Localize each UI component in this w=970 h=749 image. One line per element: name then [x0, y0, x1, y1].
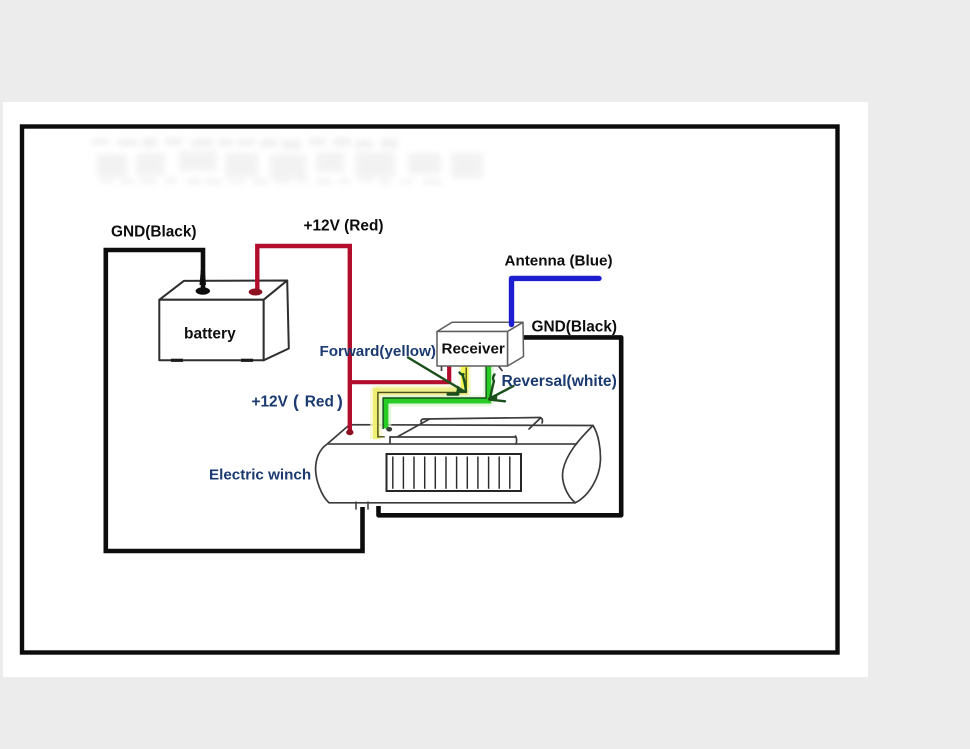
- svg-text:Receiver: Receiver: [442, 341, 505, 358]
- svg-text:Electric winch: Electric winch: [209, 467, 311, 484]
- svg-text:Red: Red: [305, 394, 334, 411]
- svg-text:Reversal(white): Reversal(white): [502, 373, 617, 390]
- svg-text:battery: battery: [184, 326, 236, 343]
- svg-text:+12V: +12V: [252, 394, 289, 411]
- svg-text:+12V (Red): +12V (Red): [304, 218, 384, 235]
- svg-text:Antenna (Blue): Antenna (Blue): [505, 253, 613, 270]
- svg-text:GND(Black): GND(Black): [111, 224, 197, 241]
- svg-text:GND(Black): GND(Black): [532, 319, 618, 336]
- svg-text:Forward(yellow): Forward(yellow): [320, 343, 436, 360]
- svg-text:(: (: [293, 392, 299, 412]
- svg-text:): ): [337, 392, 343, 412]
